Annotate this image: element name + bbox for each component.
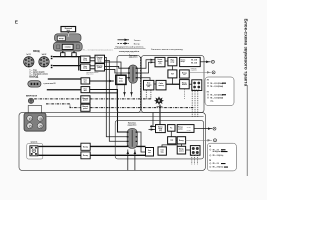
svg-text:громк.: громк. xyxy=(119,80,124,82)
gray arrow E1 to jack xyxy=(189,71,211,73)
output wire 1 xyxy=(48,78,81,80)
box G2 xyxy=(158,147,166,155)
dotted wires from connector I1 down xyxy=(191,91,193,117)
bracket wire above power connector xyxy=(28,106,41,113)
mic amp box 6 xyxy=(81,104,90,111)
preamp box 2 xyxy=(81,64,90,71)
switch outputs to record amp xyxy=(137,60,154,68)
head stub box 2 xyxy=(72,53,76,57)
svg-text:Усилит.: Усилит. xyxy=(158,126,164,128)
svg-text:воспр.: воспр. xyxy=(181,61,186,63)
DIN connector 2 xyxy=(39,57,49,67)
svg-text:Зв2 ВС: Зв2 ВС xyxy=(42,54,47,56)
svg-text:митель: митель xyxy=(179,150,184,152)
speaker line box 1 xyxy=(81,143,90,150)
svg-text:Выход: Выход xyxy=(179,140,184,142)
svg-text:ЛВ — 2 В: ЛВ — 2 В xyxy=(213,163,219,165)
svg-text:усилит.: усилит. xyxy=(178,128,183,130)
box H1 xyxy=(180,80,190,89)
dash-dot record wire A xyxy=(90,98,152,100)
wire label-box to head unit xyxy=(67,32,69,34)
speaker wires xyxy=(39,145,146,147)
box D1 xyxy=(168,70,177,78)
internal wires block R xyxy=(165,60,168,62)
svg-text:Блок: Блок xyxy=(147,83,151,85)
box E2 xyxy=(177,137,185,144)
box F1 xyxy=(144,80,154,90)
svg-text:Переключат.: Переключат. xyxy=(128,123,137,125)
jack circle 4 xyxy=(214,139,217,142)
svg-text:питания: питания xyxy=(146,84,152,86)
svg-text:Выход: Выход xyxy=(178,127,183,129)
vertical bus xyxy=(78,57,80,71)
svg-text:мотор: мотор xyxy=(59,38,64,40)
svg-text:усилит.: усилит. xyxy=(97,67,103,69)
svg-text:усилит.: усилит. xyxy=(83,100,89,102)
svg-text:ГСП: ГСП xyxy=(170,140,173,142)
internal wires R2 xyxy=(170,131,172,137)
svg-text:воспр.: воспр. xyxy=(98,60,103,62)
vertical feed into A2 xyxy=(153,112,155,126)
svg-text:Выпря-: Выпря- xyxy=(182,82,188,84)
loudspeaker starburst xyxy=(154,96,164,105)
svg-text:воспр.: воспр. xyxy=(83,60,88,62)
svg-text:мощн.: мощн. xyxy=(158,128,163,130)
arrow C2 to jack xyxy=(194,128,212,130)
mic amp box 5 xyxy=(81,96,90,103)
svg-text:ЛВ −0,5 В: ЛВ −0,5 В xyxy=(191,60,197,62)
svg-text:ВЫХОД: ВЫХОД xyxy=(29,76,38,78)
mode switch capsule 1 xyxy=(128,65,137,83)
box H2 xyxy=(177,146,185,154)
box B1 xyxy=(168,57,177,65)
box C2 wide xyxy=(177,125,194,133)
preamp box 1 xyxy=(81,56,90,63)
svg-text:Инди-: Инди- xyxy=(170,60,174,62)
svg-text:ПВ 2В: ПВ 2В xyxy=(187,130,191,132)
power wire xyxy=(47,116,204,118)
wire monitor speaker to power amp xyxy=(159,105,161,125)
ground return wires with up arrows xyxy=(127,150,129,171)
dash-dot record wire B xyxy=(90,107,193,109)
box D2 xyxy=(168,137,176,144)
legend dashed arrow xyxy=(118,42,130,44)
svg-text:ЛВ 2В: ЛВ 2В xyxy=(187,127,191,129)
links col1-col2 xyxy=(90,57,95,59)
jack circle 1 xyxy=(211,60,214,63)
annotation panel 1 xyxy=(205,77,234,106)
head stubs to bus xyxy=(62,51,64,53)
svg-text:ПВ — 0,5 В (250мВ): ПВ — 0,5 В (250мВ) xyxy=(210,86,223,88)
record amp box A1 xyxy=(155,57,165,66)
input bus wire 2 xyxy=(53,65,81,67)
wires col2 down to mode switch 2 xyxy=(105,57,128,136)
svg-text:Усилитель записи и воспроизвед: Усилитель записи и воспроизвед. xyxy=(151,49,184,51)
speaker cabinet xyxy=(27,144,43,159)
head unit bottom capsule (head block) xyxy=(53,42,82,51)
preamp block border M xyxy=(117,56,140,113)
svg-text:ЛВ — 2 В: ЛВ — 2 В xyxy=(213,149,219,151)
line amp box 4 xyxy=(81,87,90,93)
svg-text:Воспр.: Воспр. xyxy=(134,43,141,45)
svg-text:митель: митель xyxy=(182,84,187,86)
box E1 xyxy=(180,70,190,78)
svg-text:Переключат.: Переключат. xyxy=(129,55,138,57)
dashed playback boundary wire xyxy=(140,57,142,110)
mic dashed wire B xyxy=(46,104,81,108)
svg-text:Усил.: Усил. xyxy=(83,66,87,68)
record-path verticals with arrows onto mic line xyxy=(124,85,126,97)
svg-text:узел: узел xyxy=(67,30,70,32)
svg-text:Е: Е xyxy=(15,19,19,25)
svg-text:воспр.: воспр. xyxy=(83,68,88,70)
svg-text:к усилителю НЧ: к усилителю НЧ xyxy=(44,83,56,85)
svg-text:лизатор: лизатор xyxy=(158,85,164,87)
svg-text:1 — вход: 1 — вход xyxy=(30,69,37,71)
svg-text:Зв1 ЗС: Зв1 ЗС xyxy=(26,54,31,56)
power connector block xyxy=(24,113,46,131)
speaker line box 2 xyxy=(81,152,90,159)
svg-text:2 — корпус (экран): 2 — корпус (экран) xyxy=(30,71,45,73)
arrow from output amp box3 to volume box xyxy=(90,80,114,82)
output wire 2 xyxy=(47,89,81,91)
svg-text:Усил.: Усил. xyxy=(83,88,87,90)
volume control box (thick border) xyxy=(116,75,126,84)
switch2 to F2 wire xyxy=(137,132,145,152)
thick wire box4 down to switch 2 xyxy=(90,90,128,133)
svg-text:головки: головки xyxy=(65,47,71,49)
svg-text:вход записи: вход записи xyxy=(86,74,94,76)
svg-text:записи: записи xyxy=(158,61,163,63)
wires col2 to mode switch 1 xyxy=(105,66,129,68)
svg-text:ПВ — 0,5 В (250мВ): ПВ — 0,5 В (250мВ) xyxy=(210,97,223,99)
legend solid arrow xyxy=(118,39,130,41)
svg-text:ЛВ — 0,5 В (250мВ): ЛВ — 0,5 В (250мВ) xyxy=(210,83,223,85)
svg-text:громкогов.: громкогов. xyxy=(30,142,38,144)
svg-text:ПВ: ПВ xyxy=(209,160,211,162)
svg-text:ПВ −0,5 В: ПВ −0,5 В xyxy=(191,63,197,65)
svg-text:ЛВ — 0,5 В (250мВ): ЛВ — 0,5 В (250мВ) xyxy=(210,94,223,96)
connector pin dots xyxy=(51,56,53,57)
svg-text:ВХОД: ВХОД xyxy=(33,51,40,53)
box B2 xyxy=(168,125,175,132)
svg-text:3 — вход (прав. канал): 3 — вход (прав. канал) xyxy=(30,73,48,75)
head stub box 1 xyxy=(61,53,65,57)
connector box I2 xyxy=(190,146,200,156)
svg-text:ГСП: ГСП xyxy=(171,74,174,76)
outer bottom enclosure xyxy=(19,113,205,171)
dotted wires below I2 xyxy=(191,155,193,164)
input bus wire 1 xyxy=(53,56,81,58)
svg-text:Выход: Выход xyxy=(182,72,187,74)
microphone connector xyxy=(28,98,33,103)
preamp col2 box A xyxy=(95,55,105,63)
power amp block R2 xyxy=(115,120,203,158)
mic dashed wire A xyxy=(34,98,81,100)
vertical rule under title xyxy=(246,85,248,176)
annotation panel 2 xyxy=(207,143,236,171)
svg-text:Регул.: Регул. xyxy=(119,78,124,80)
svg-text:к усилителю записи: к усилителю записи xyxy=(86,72,99,74)
preamp col2 box B xyxy=(95,64,105,71)
svg-text:усилит.: усилит. xyxy=(83,108,89,110)
svg-text:Усилит.: Усилит. xyxy=(158,59,164,61)
box C1 wide xyxy=(180,57,201,66)
DIN connector 1 xyxy=(24,57,34,67)
jack circle 2 xyxy=(212,71,215,74)
svg-text:Запись: Запись xyxy=(134,40,141,42)
svg-text:катор: катор xyxy=(171,61,175,63)
svg-text:ЛВ: ЛВ xyxy=(209,146,211,148)
output oval connector xyxy=(28,81,41,87)
svg-text:Блок-схема звукового тракта: Блок-схема звукового тракта xyxy=(244,19,249,87)
dotted wires from power box F1 xyxy=(145,90,147,99)
head unit top capsule xyxy=(55,33,82,41)
wire under box4 xyxy=(90,92,118,94)
connector box I1 xyxy=(192,80,202,91)
arrow C1 to jack xyxy=(200,61,210,63)
svg-text:наушники: наушники xyxy=(191,70,197,72)
power amp box A2 xyxy=(156,125,166,133)
svg-text:Выпря-: Выпря- xyxy=(179,149,184,151)
svg-text:ЛВ: ЛВ xyxy=(207,80,209,82)
record block border R xyxy=(141,56,204,113)
box F2 xyxy=(146,148,154,157)
svg-text:Усил.: Усил. xyxy=(83,58,87,60)
svg-text:Предвар.: Предвар. xyxy=(97,65,104,67)
mode switch capsule 2 xyxy=(127,128,138,148)
svg-text:Усил.: Усил. xyxy=(83,80,87,82)
svg-text:ЛПМ — лентопротяжный механизм: ЛПМ — лентопротяжный механизм магн. xyxy=(81,49,114,52)
jack circle 3 xyxy=(213,127,216,130)
svg-text:и коммутация рода работы: и коммутация рода работы xyxy=(119,50,140,53)
svg-text:усилит.: усилит. xyxy=(97,59,103,61)
svg-text:МИКРОФОН: МИКРОФОН xyxy=(26,94,38,97)
svg-text:Усилит.: Усилит. xyxy=(181,59,187,61)
box G1 xyxy=(156,80,166,90)
line amp box 3 xyxy=(81,78,90,84)
svg-text:Блок: Блок xyxy=(148,150,152,152)
svg-text:Предвар.: Предвар. xyxy=(97,57,104,59)
gray arrow E2 to jack4 xyxy=(186,139,212,141)
head unit label box xyxy=(61,27,76,32)
svg-text:ПВ: ПВ xyxy=(207,91,209,93)
